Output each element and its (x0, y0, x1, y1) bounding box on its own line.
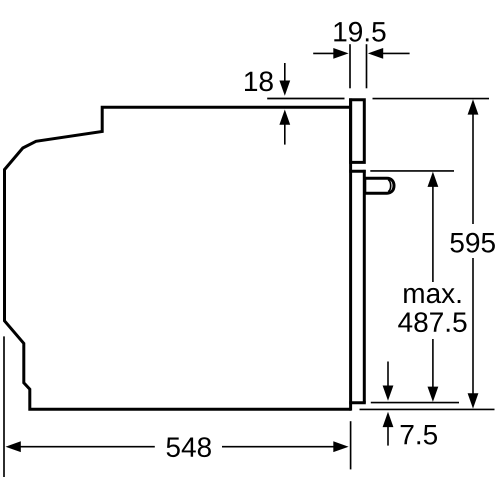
oven body outline (5, 107, 353, 409)
reference line panel-top right (373, 98, 490, 100)
dimension 18 up arrow (279, 110, 290, 145)
label 595 (451, 233, 495, 253)
extension line 548 left (3, 336, 5, 477)
extension line 19.5 right (366, 44, 368, 88)
dimension 7.5 down arrow (383, 362, 394, 401)
label 7.5 (401, 425, 437, 445)
door handle (365, 178, 394, 193)
door top edge (349, 170, 366, 173)
extension line 19.5 left (349, 44, 351, 88)
control panel upper box (351, 100, 365, 163)
dimension 548 left arrow (6, 441, 155, 452)
dimension 7.5 up arrow (383, 412, 394, 446)
reference line body-bottom right (360, 408, 495, 410)
dimension 19.5 right arrow (368, 48, 410, 59)
dimension 595 top arrow (468, 99, 479, 224)
reference line handle-top (370, 170, 454, 172)
label 18 (245, 71, 273, 91)
reference line panel-top left (267, 98, 344, 100)
front panel left edge (349, 98, 352, 410)
dimension max 487.5 top arrow (428, 172, 439, 282)
door front edge (363, 170, 366, 403)
extension line 548 right (350, 421, 352, 469)
label max. (404, 288, 460, 303)
dimension 595 bottom arrow (468, 258, 479, 409)
dimension 18 down arrow (279, 63, 290, 96)
dimension 548 right arrow (222, 441, 349, 452)
label 487.5 (398, 312, 466, 332)
label 19.5 (334, 22, 385, 42)
dimension 19.5 left arrow (313, 48, 348, 59)
label 548 (167, 437, 211, 457)
door bottom edge (349, 401, 366, 404)
dimension max 487.5 bottom arrow (428, 339, 439, 402)
handle end cap line (388, 180, 391, 192)
reference line door-bottom (371, 402, 459, 404)
